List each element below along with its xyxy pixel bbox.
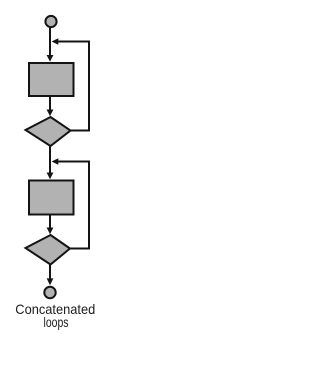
arrowhead of loop 2 entering stem <box>52 158 59 165</box>
wire: stem from diamond 1 to process box 2 <box>49 146 51 174</box>
arrowhead into end node <box>47 278 54 285</box>
arrowhead into decision diamond 1 <box>47 110 54 117</box>
svg-text:loops: loops <box>44 315 69 330</box>
start node (top circle) <box>45 16 56 27</box>
arrowhead of loop 1 entering stem <box>52 38 59 45</box>
wire: loop 1 feedback (diamond 1 right vertex, up, back into stem) <box>57 42 90 131</box>
wire: stem from process box 2 to decision diamond 2 <box>49 216 51 230</box>
wire: loop 2 feedback (diamond 2 right vertex, up, back into stem) <box>57 162 90 249</box>
arrowhead into process box 2 <box>47 173 54 180</box>
wire: stem from process box 1 to decision diamond 1 <box>49 97 51 111</box>
decision diamond 2 <box>26 235 71 265</box>
process box 1 <box>29 63 74 96</box>
end node (bottom circle) <box>44 287 55 298</box>
arrowhead into process box 1 <box>47 55 54 62</box>
wire: stem from diamond 2 to end node <box>49 265 51 280</box>
wire: stem from start node to process box 1 <box>49 28 51 57</box>
process box 2 <box>29 181 74 215</box>
arrowhead into decision diamond 2 <box>47 228 54 235</box>
decision diamond 1 <box>26 117 71 146</box>
